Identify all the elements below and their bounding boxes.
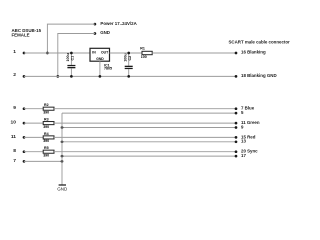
- svg-text:R1: R1: [140, 46, 145, 50]
- connector label ABC DSUB-15 FEMALE: [12, 28, 42, 37]
- pin 11 DSUB: [11, 134, 26, 140]
- svg-text:390: 390: [43, 125, 49, 129]
- svg-text:10: 10: [11, 120, 17, 126]
- svg-text:C2: C2: [128, 56, 132, 61]
- svg-text:16 Blanking: 16 Blanking: [241, 49, 266, 54]
- svg-text:FEMALE: FEMALE: [12, 32, 30, 37]
- resistor R1: [140, 46, 152, 59]
- pin 9 DSUB: [13, 105, 25, 111]
- node Power off-page: [94, 21, 138, 26]
- svg-text:100u: 100u: [66, 53, 70, 61]
- svg-text:GND: GND: [96, 57, 104, 61]
- svg-text:11 Green: 11 Green: [241, 120, 260, 125]
- node SCART 20 Sync: [235, 149, 259, 154]
- svg-text:9: 9: [13, 105, 16, 111]
- wire R1 to SCART 16: [152, 52, 236, 54]
- svg-text:C1: C1: [71, 56, 75, 61]
- svg-text:390: 390: [43, 111, 49, 115]
- pin 10 DSUB: [11, 120, 26, 126]
- svg-text:IN: IN: [92, 50, 96, 54]
- node SCART 16 Blanking: [235, 49, 266, 54]
- ground: [57, 185, 68, 192]
- svg-text:390: 390: [43, 139, 49, 143]
- node SCART 17: [235, 153, 247, 158]
- svg-text:Power 17..24V/2A: Power 17..24V/2A: [100, 21, 137, 26]
- resistor R3: [43, 118, 54, 129]
- svg-text:R5: R5: [44, 146, 49, 150]
- wire pin9 to R2: [24, 108, 43, 110]
- node SCART 15 Red: [235, 134, 256, 139]
- wire power tap: pin1 row up and right to Power node: [47, 24, 95, 53]
- svg-text:11: 11: [11, 134, 16, 140]
- svg-text:R2: R2: [44, 103, 49, 107]
- capacitor C1: [66, 52, 75, 78]
- wire SCART 9 gnd row: [62, 127, 236, 129]
- node SCART 18 Blanking GND: [235, 73, 277, 78]
- wire R2 to SCART 7: [54, 108, 236, 110]
- wire pin11 to R4: [24, 136, 43, 138]
- svg-text:GND: GND: [100, 30, 110, 35]
- wire IC1 GND pin down to ground rail: [99, 61, 101, 76]
- regulator IC1 7805: [90, 48, 112, 70]
- junction gnd bus / SCART 9 row: [61, 126, 64, 129]
- wire pin8 to R5: [24, 151, 43, 153]
- wire SCART 13 gnd row: [62, 141, 236, 143]
- node SCART 5: [235, 110, 244, 115]
- svg-text:7: 7: [13, 158, 16, 164]
- pin 8 DSUB: [13, 148, 25, 154]
- svg-text:100: 100: [141, 55, 147, 59]
- svg-text:GND: GND: [57, 187, 68, 192]
- node SCART 7 Blue: [235, 106, 255, 111]
- capacitor C2: [124, 52, 133, 78]
- junction gnd bus / pin7 row: [61, 160, 64, 163]
- wire R5 to SCART 20: [54, 151, 236, 153]
- wire SCART 17 gnd row: [62, 155, 236, 157]
- junction gnd bus / SCART 13 row: [61, 140, 64, 143]
- svg-text:R4: R4: [44, 132, 49, 136]
- svg-text:100u: 100u: [124, 54, 128, 62]
- resistor R2: [43, 103, 54, 114]
- resistor R4: [43, 132, 54, 143]
- wire IC1 OUT to R1: [110, 52, 143, 54]
- resistor R5: [43, 146, 54, 157]
- pin 2 DSUB: [13, 72, 25, 78]
- wire pin7 to ground bus: [24, 160, 62, 162]
- wire R4 to SCART 15: [54, 136, 236, 138]
- wire pin10 to R3: [24, 122, 43, 124]
- pin 7 DSUB: [13, 158, 25, 164]
- pin 1 DSUB: [13, 49, 25, 55]
- svg-text:8: 8: [13, 148, 16, 154]
- node SCART 13: [235, 139, 247, 144]
- svg-text:17: 17: [241, 153, 246, 158]
- wire gnd tap: pin2 row up and right to GND node: [58, 34, 95, 77]
- junction on pin1 row at power tap: [46, 52, 49, 55]
- wire R3 to SCART 11: [54, 122, 236, 124]
- svg-text:R3: R3: [44, 118, 49, 122]
- node SCART 9: [235, 124, 244, 129]
- wire pin2 ground rail to SCART 18: [24, 75, 236, 77]
- svg-text:390: 390: [43, 154, 49, 158]
- node SCART 11 Green: [235, 120, 260, 125]
- junction gnd bus / SCART 17 row: [61, 155, 64, 158]
- wire pin1 to IC1 IN: [24, 52, 90, 54]
- svg-text:2: 2: [13, 72, 16, 78]
- wire ground bus vertical: [61, 113, 63, 185]
- node GND off-page: [94, 30, 110, 35]
- wire SCART 5 gnd row: [62, 112, 236, 114]
- svg-text:1: 1: [13, 49, 16, 55]
- junction on pin2 row at gnd tap: [56, 75, 59, 78]
- svg-text:18 Blanking GND: 18 Blanking GND: [241, 73, 277, 78]
- svg-text:OUT: OUT: [101, 50, 109, 54]
- svg-text:SCART male cable connector: SCART male cable connector: [229, 39, 291, 44]
- svg-text:7805: 7805: [104, 66, 112, 70]
- svg-text:13: 13: [241, 139, 246, 144]
